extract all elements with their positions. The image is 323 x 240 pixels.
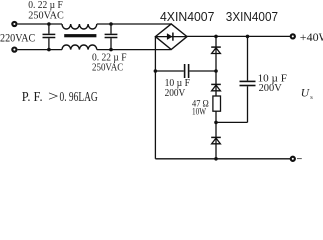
minus sign at bottom output	[297, 158, 302, 160]
svg-text:250VAC: 250VAC	[28, 9, 64, 21]
node: C4 top junction on rail	[246, 35, 250, 39]
svg-text:10W: 10W	[192, 107, 206, 117]
capacitor C4 10uF 200V (vertical, right)	[240, 36, 256, 122]
wire: bottom AC line from input terminal to choke	[18, 49, 62, 51]
node: C1 bottom junction	[47, 48, 51, 52]
node: C2 top junction	[109, 22, 113, 26]
wire: top AC line after choke to bridge	[97, 23, 171, 25]
inductor L1 core bar	[64, 34, 96, 37]
wire: node B to bottom rail through D3	[215, 122, 217, 158]
capacitor C2 0.22uF 250VAC (second X-cap)	[105, 24, 118, 50]
terminal: AC input top	[12, 22, 16, 26]
inductor L1 common-mode choke bottom winding	[62, 45, 97, 50]
resistor R1 47ohm 10W	[213, 96, 221, 111]
svg-text:0. 96LAG: 0. 96LAG	[60, 90, 98, 105]
svg-text:4XIN4007: 4XIN4007	[160, 10, 214, 24]
diode D2 (3XIN4007, middle, cathode up)	[211, 84, 221, 90]
node: diode string top on DC+ rail	[214, 35, 218, 39]
node: C3 left junction on bus negative	[154, 69, 158, 73]
svg-text:200V: 200V	[259, 82, 282, 94]
wire: bottom rail to output terminal	[155, 158, 290, 160]
node: C2 bottom junction	[109, 48, 113, 52]
svg-text:220VAC: 220VAC	[0, 33, 36, 45]
node: string bottom on rail	[214, 157, 218, 161]
capacitor C1 0.22uF 250VAC (input X-cap)	[43, 24, 56, 50]
wire: node B to C4 bottom	[216, 121, 248, 123]
svg-text:250VAC: 250VAC	[92, 63, 123, 74]
wire: DC+ rail from bridge right vertex to +40W terminal	[187, 35, 291, 37]
svg-text:P. F.: P. F.	[22, 90, 43, 105]
svg-text:U: U	[301, 87, 310, 99]
node B: junction below resistor	[214, 121, 218, 125]
terminal: AC input bottom	[12, 48, 16, 52]
node: C1 top junction	[47, 22, 51, 26]
diode D1 (3XIN4007, top, cathode up)	[211, 47, 221, 53]
wire: string top lead	[215, 36, 217, 71]
svg-text:200V: 200V	[165, 88, 186, 99]
svg-text:0. 22 µ F: 0. 22 µ F	[92, 52, 127, 63]
wire: resistor to node B	[215, 111, 217, 122]
wire: bottom AC line after choke to bridge bottom vertex	[97, 49, 171, 51]
svg-text:+40W: +40W	[300, 30, 323, 44]
bridge rectifier 4XIN4007 diamond	[155, 24, 187, 50]
bridge internal diode symbol	[155, 33, 187, 41]
svg-text:>: >	[48, 89, 59, 105]
wire: bus negative from bridge left vertex down	[154, 37, 156, 159]
capacitor C3 10uF 200V (horizontal)	[155, 64, 216, 78]
wire: top AC line from input terminal to bridge top vertex	[18, 23, 62, 25]
node A: C3 right junction on diode string	[214, 69, 218, 73]
inductor L1 common-mode choke top winding	[62, 24, 97, 29]
diode D3 (3XIN4007, bottom, cathode up)	[211, 137, 221, 143]
terminal: +40W output	[291, 34, 295, 38]
terminal: output bottom	[291, 157, 295, 161]
svg-text:3XIN4007: 3XIN4007	[226, 10, 278, 24]
wire: node A to resistor through D2	[215, 71, 217, 96]
